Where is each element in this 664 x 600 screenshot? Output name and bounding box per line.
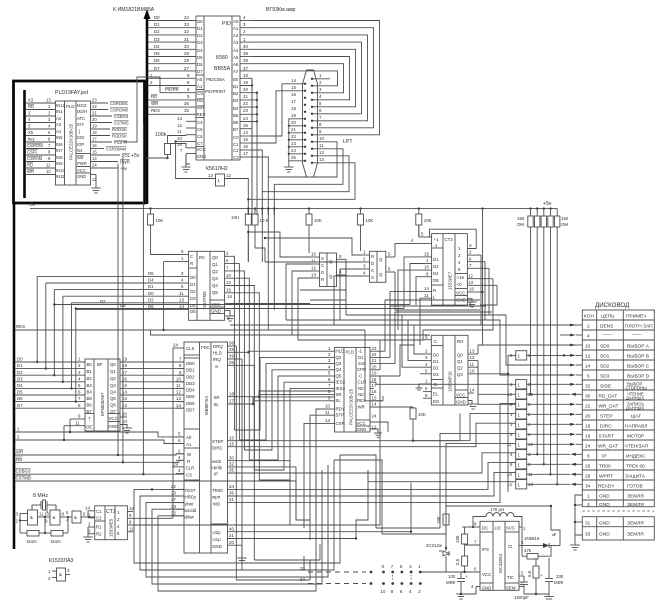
svg-text:40: 40 xyxy=(243,44,248,49)
svg-text:1500pF: 1500pF xyxy=(514,595,529,600)
svg-text:RD: RD xyxy=(197,98,203,103)
wire PLD2 HLD link xyxy=(248,351,326,352)
svg-text:ШАГ: ШАГ xyxy=(631,413,642,419)
wire verticals TM9 Q to PLD2 inputs xyxy=(234,357,326,480)
svg-text:CSROM44: CSROM44 xyxy=(106,147,127,152)
svg-text:ATC: ATC xyxy=(77,116,85,121)
IC D10 right pin stubs xyxy=(370,346,413,438)
svg-text:12: 12 xyxy=(372,424,377,429)
svg-text:RD: RD xyxy=(28,104,34,109)
wire RES pin35 xyxy=(148,108,196,114)
wire U1p U2p loops right xyxy=(334,455,446,540)
svg-text:Q0: Q0 xyxy=(110,362,116,367)
svg-text:20: 20 xyxy=(92,117,97,122)
IC D9 pin CLK xyxy=(173,343,184,348)
wire D5 net xyxy=(16,390,86,395)
flip-flop D6.2 box xyxy=(370,251,386,282)
IC D9 right pins STEP DIRC xyxy=(228,413,516,446)
svg-text:16: 16 xyxy=(585,433,591,439)
svg-text:DB0: DB0 xyxy=(186,361,195,366)
svg-text:PIOPR: PIOPR xyxy=(165,87,179,92)
svg-text:19: 19 xyxy=(243,80,248,85)
svg-text:27: 27 xyxy=(171,497,176,502)
svg-text:PWR: PWR xyxy=(120,160,130,165)
svg-text:33: 33 xyxy=(585,532,591,538)
svg-text:ПРИМЕЧ: ПРИМЕЧ xyxy=(626,313,647,319)
svg-text:К ИМ1821ВМ85А: К ИМ1821ВМ85А xyxy=(113,7,155,13)
flip-flop D6.1 pins xyxy=(311,252,346,278)
svg-text:30: 30 xyxy=(229,455,234,460)
svg-text:IN8: IN8 xyxy=(56,155,63,160)
svg-text:15: 15 xyxy=(229,435,234,440)
svg-text:ЗЕМЛЯ: ЗЕМЛЯ xyxy=(627,521,644,527)
svg-text:13: 13 xyxy=(470,349,475,354)
wire CI connection xyxy=(0,0,1,1)
wire C6 C7 to inverter xyxy=(174,135,216,179)
svg-text:U1p: U1p xyxy=(213,537,222,542)
svg-text:Q: Q xyxy=(379,257,383,262)
svg-text:C: C xyxy=(371,268,374,273)
svg-text:PLD: PLD xyxy=(66,104,75,109)
svg-text:18: 18 xyxy=(122,363,127,368)
svg-text:11: 11 xyxy=(470,362,475,367)
node dashed option box thick border xyxy=(14,81,145,203)
svg-text:D1: D1 xyxy=(433,257,439,262)
ground bottom cluster xyxy=(524,593,554,599)
svg-text:33: 33 xyxy=(184,22,189,27)
connector LPT left pin numbers xyxy=(291,78,296,160)
svg-text:VCC: VCC xyxy=(357,421,366,426)
svg-text:ВЫБОР В: ВЫБОР В xyxy=(627,353,649,359)
svg-text:PIOPR: PIOPR xyxy=(114,140,127,145)
svg-text:R: R xyxy=(187,459,190,464)
resistor R11 150 Om xyxy=(555,209,560,486)
svg-text:HLD: HLD xyxy=(336,349,345,354)
svg-text:WR: WR xyxy=(197,105,204,110)
svg-text:12: 12 xyxy=(507,482,512,487)
svg-text:Q1: Q1 xyxy=(110,369,116,374)
svg-text:R2: R2 xyxy=(96,532,102,537)
svg-text:GND: GND xyxy=(357,427,367,432)
svg-text:B1: B1 xyxy=(87,369,93,374)
wire output node xyxy=(545,505,560,556)
svg-text:SL: SL xyxy=(214,402,220,407)
resistor R8 150 Om xyxy=(535,209,540,456)
wire D3 to PIO xyxy=(148,37,196,42)
wire LPT pin1 stub xyxy=(313,78,330,80)
svg-text:+: + xyxy=(465,574,468,579)
svg-text:12: 12 xyxy=(468,273,473,278)
svg-text:12: 12 xyxy=(585,353,591,359)
svg-text:12: 12 xyxy=(122,403,127,408)
svg-text:12: 12 xyxy=(176,390,181,395)
svg-text:20: 20 xyxy=(229,540,234,545)
svg-text:Q: Q xyxy=(379,272,383,277)
svg-text:19: 19 xyxy=(291,113,296,118)
IC D9 pins DB0-DB7 xyxy=(176,357,184,409)
wire VCC stub xyxy=(171,144,187,148)
wire bus verticals from LPT area down xyxy=(248,78,274,215)
svg-text:w1/dd: w1/dd xyxy=(185,508,197,513)
svg-text:32: 32 xyxy=(171,510,176,515)
svg-text:КР580ВА87: КР580ВА87 xyxy=(100,392,105,416)
svg-text:&: & xyxy=(74,515,77,520)
wire IE5 R1 R2 ground xyxy=(83,527,93,542)
svg-text:D2: D2 xyxy=(190,289,196,294)
svg-text:wstb: wstb xyxy=(212,459,222,464)
svg-text:13: 13 xyxy=(122,396,127,401)
svg-text:Q: Q xyxy=(329,274,333,279)
svg-text:Q5: Q5 xyxy=(212,290,218,295)
svg-text:GND: GND xyxy=(482,586,492,591)
svg-text:SR: SR xyxy=(336,392,342,397)
connector XS2 power pins row2 xyxy=(370,582,422,585)
svg-text:15: 15 xyxy=(226,287,231,292)
svg-text:C4: C4 xyxy=(197,120,203,125)
svg-text:LPT: LPT xyxy=(343,139,353,145)
svg-text:D0: D0 xyxy=(17,357,23,362)
svg-text:11: 11 xyxy=(176,383,181,388)
svg-text:R: R xyxy=(190,261,193,266)
wire TM9 clock from R1 pullup xyxy=(151,254,181,256)
svg-text:WPRT: WPRT xyxy=(599,473,613,479)
svg-text:10: 10 xyxy=(176,376,181,381)
gate DD3 spare xyxy=(48,568,70,581)
svg-text:IN12: IN12 xyxy=(56,103,66,108)
svg-text:17: 17 xyxy=(291,99,296,104)
svg-text:28: 28 xyxy=(184,58,189,63)
node power top rail xyxy=(446,505,551,507)
svg-text:4: 4 xyxy=(587,333,590,339)
svg-text:14: 14 xyxy=(585,363,591,369)
svg-text:TEST: TEST xyxy=(185,488,197,493)
wire WR net xyxy=(16,450,185,455)
svg-text:32: 32 xyxy=(229,462,234,467)
svg-text:15: 15 xyxy=(92,150,97,155)
svg-text:IOP: IOP xyxy=(77,142,84,147)
svg-text:10Н: 10Н xyxy=(231,215,239,220)
wire +5v rail xyxy=(30,207,557,209)
svg-text:ЦЕПЬ: ЦЕПЬ xyxy=(601,313,614,319)
svg-text:X5: X5 xyxy=(28,130,34,135)
capacitor C6 1500pF xyxy=(514,576,529,600)
svg-text:IN10: IN10 xyxy=(56,168,66,173)
IC U4 MC34063 box xyxy=(480,521,519,590)
wire right risers to driver column xyxy=(368,413,516,534)
svg-text:34: 34 xyxy=(229,484,234,489)
svg-text:10: 10 xyxy=(177,136,182,141)
svg-text:A5: A5 xyxy=(233,55,239,60)
svg-text:30: 30 xyxy=(184,44,189,49)
svg-text:10 K: 10 K xyxy=(260,218,269,223)
svg-text:10K: 10K xyxy=(156,218,164,223)
svg-text:BF: BF xyxy=(97,362,103,367)
svg-text:19: 19 xyxy=(92,124,97,129)
svg-text:GND: GND xyxy=(77,174,86,179)
svg-text:D0: D0 xyxy=(197,19,203,24)
wire D1 to PIO xyxy=(148,22,196,28)
svg-text:10: 10 xyxy=(507,472,512,477)
connector XS2 numbers row1 xyxy=(382,564,422,569)
svg-text:0,5: 0,5 xyxy=(455,558,460,565)
wire osc out to IE5 xyxy=(88,511,95,517)
svg-text:IN6: IN6 xyxy=(56,142,63,147)
node DISKOVOD title xyxy=(595,302,630,309)
IC D9 FDC MB8876A box xyxy=(184,342,228,553)
svg-text:CLK: CLK xyxy=(186,346,195,351)
wire power feed to converter xyxy=(420,571,461,573)
svg-text:PLD19FAY.jed: PLD19FAY.jed xyxy=(55,90,88,96)
svg-text:39: 39 xyxy=(229,354,234,359)
svg-text:PWR: PWR xyxy=(77,161,87,166)
svg-text:10: 10 xyxy=(470,368,475,373)
IC D7 pins left xyxy=(408,232,432,299)
wire vertical drops B group to mid region xyxy=(248,209,274,330)
wire PIO C0 C1 to LPT 14 15 xyxy=(252,84,305,143)
svg-text:34: 34 xyxy=(300,577,305,582)
svg-text:21: 21 xyxy=(372,358,377,363)
svg-text:HLD: HLD xyxy=(213,351,222,356)
IC U1 right pin stubs and numbers xyxy=(240,15,257,157)
connector XS2 power pins row1 xyxy=(370,571,422,574)
svg-text:32: 32 xyxy=(184,29,189,34)
svg-text:+1: +1 xyxy=(434,237,440,242)
svg-text:15: 15 xyxy=(291,85,296,90)
wire IE7 D input links xyxy=(390,257,424,345)
IC D3 left pin numbers xyxy=(64,357,85,426)
svg-text:B7: B7 xyxy=(233,127,239,132)
svg-text:——: —— xyxy=(603,333,613,338)
svg-text:GND: GND xyxy=(599,502,610,508)
wire D0 to PIO xyxy=(148,15,196,21)
wire GND bus of table xyxy=(570,495,582,550)
wire arrow tails xyxy=(576,325,582,484)
svg-text:D2: D2 xyxy=(154,29,160,34)
svg-text:RDY: RDY xyxy=(336,406,345,411)
svg-text:GND: GND xyxy=(599,521,610,527)
wire D2 branch xyxy=(53,299,410,306)
wire PIO C2 C3 drops xyxy=(252,150,268,192)
svg-text:D3: D3 xyxy=(190,296,196,301)
svg-text:IN1: IN1 xyxy=(56,109,63,114)
IC U1 left lower pins C4-C7 VCC GND xyxy=(177,116,196,154)
svg-text:GND: GND xyxy=(599,493,610,499)
svg-text:1kom: 1kom xyxy=(26,539,37,544)
svg-text:1N5819: 1N5819 xyxy=(524,536,540,541)
svg-text:CSR: CSR xyxy=(336,421,345,426)
svg-text:READY: READY xyxy=(598,483,615,489)
svg-text:M2/H: M2/H xyxy=(77,109,87,114)
svg-text:11: 11 xyxy=(319,143,324,148)
svg-text:Q6: Q6 xyxy=(110,403,116,408)
svg-text:SIDE: SIDE xyxy=(600,383,611,389)
svg-text:SD0: SD0 xyxy=(600,343,610,349)
svg-text:PALCE22V10B-25: PALCE22V10B-25 xyxy=(69,123,74,160)
svg-text:23: 23 xyxy=(291,141,296,146)
svg-text:11: 11 xyxy=(75,421,80,426)
svg-text:D6: D6 xyxy=(197,62,203,67)
svg-text:ВЫБОР D: ВЫБОР D xyxy=(627,373,650,379)
svg-text:10: 10 xyxy=(319,136,324,141)
wire D6 net xyxy=(16,396,86,401)
wire PIO B0 B1 drop xyxy=(240,78,253,215)
svg-text:D3: D3 xyxy=(17,376,23,381)
resistor R12 10K near PLD2 xyxy=(410,407,426,442)
svg-text:D4: D4 xyxy=(433,271,439,276)
svg-text:3: 3 xyxy=(587,502,590,508)
svg-text:26: 26 xyxy=(585,463,591,469)
wire TM9 reset from RES line xyxy=(162,262,180,332)
svg-text:DENS: DENS xyxy=(600,323,613,329)
wire FF2 input links xyxy=(264,237,362,325)
svg-text:ЗАЩИТА: ЗАЩИТА xyxy=(625,473,646,479)
svg-text:12: 12 xyxy=(13,519,18,524)
node table header xyxy=(584,313,647,319)
svg-text:36: 36 xyxy=(184,101,189,106)
svg-text:IES2: IES2 xyxy=(336,380,346,385)
svg-text:38: 38 xyxy=(243,58,248,63)
svg-text:1kom: 1kom xyxy=(50,539,61,544)
svg-text:IPS: IPS xyxy=(482,547,489,552)
wire DENS long link xyxy=(230,324,576,326)
svg-text:key: key xyxy=(28,137,35,142)
svg-text:WR: WR xyxy=(16,450,23,455)
svg-text:SEM: SEM xyxy=(506,586,516,591)
svg-text:RES: RES xyxy=(151,108,160,113)
wire D4 to PIO xyxy=(148,44,196,49)
svg-text:WR_GAT: WR_GAT xyxy=(598,443,618,449)
svg-text:IOD: IOD xyxy=(77,135,84,140)
svg-text:RES: RES xyxy=(16,324,25,329)
svg-text:12: 12 xyxy=(470,355,475,360)
svg-text:VCC: VCC xyxy=(77,168,86,173)
svg-text:R: R xyxy=(321,277,324,282)
svg-text:D3: D3 xyxy=(154,37,160,42)
wire D0 net xyxy=(16,357,86,362)
svg-text:11: 11 xyxy=(507,442,512,447)
gate DD1.3 NAND xyxy=(66,510,95,523)
svg-text:12: 12 xyxy=(226,173,231,178)
svg-text:C0: C0 xyxy=(233,135,239,140)
inductor L1 170uH xyxy=(473,507,522,527)
svg-text:20: 20 xyxy=(585,413,591,419)
wire FF1 input links xyxy=(247,231,311,340)
svg-text:12: 12 xyxy=(319,150,324,155)
svg-text:D2: D2 xyxy=(100,299,106,304)
svg-text:PIO: PIO xyxy=(222,21,231,27)
svg-text:13: 13 xyxy=(319,157,324,162)
svg-text:14: 14 xyxy=(243,130,248,135)
svg-text:D1: D1 xyxy=(358,355,364,360)
svg-text:T: T xyxy=(88,417,91,422)
svg-text:26: 26 xyxy=(229,360,234,365)
svg-text:NC: NC xyxy=(358,386,364,391)
svg-text:D1: D1 xyxy=(190,282,196,287)
svg-text:2: 2 xyxy=(587,323,590,329)
svg-text:14: 14 xyxy=(424,286,429,291)
svg-text:1533ИЕ5: 1533ИЕ5 xyxy=(109,518,114,537)
svg-text:14: 14 xyxy=(85,505,90,510)
svg-text:Q4: Q4 xyxy=(336,367,342,372)
svg-text:ДИСКОВОД: ДИСКОВОД xyxy=(595,302,630,309)
wire IR16 Q0-Q2 to drivers xyxy=(478,345,576,404)
wire IR16 C input from left xyxy=(420,373,423,375)
svg-text:ГОТОВ: ГОТОВ xyxy=(627,483,643,489)
IC D3 right pins Q0-Q7 to FDC xyxy=(120,357,184,433)
svg-text:16: 16 xyxy=(227,294,232,299)
wire data verticals from D bus xyxy=(36,276,77,402)
svg-text:13: 13 xyxy=(325,418,330,423)
wire PIOPR out of box to PIO CS xyxy=(124,77,160,142)
IC D11 left pins xyxy=(423,334,431,398)
svg-text:23: 23 xyxy=(243,108,248,113)
svg-text:35: 35 xyxy=(184,108,189,113)
svg-text:10: 10 xyxy=(122,419,127,424)
wire PIO B2-B6 junction dots column xyxy=(256,92,258,216)
svg-text:D2: D2 xyxy=(433,366,439,371)
svg-text:14: 14 xyxy=(92,156,97,161)
node K1533LA3 label xyxy=(49,558,73,564)
svg-text:HRDy: HRDy xyxy=(185,495,198,500)
diode VD1 1N5819 xyxy=(522,527,560,548)
IC D10 PALCE22V10 right box xyxy=(335,347,370,432)
IC D9 pins A0 A1 W R CLR CS xyxy=(172,432,184,474)
svg-text:24: 24 xyxy=(173,343,178,348)
ground C5 xyxy=(456,594,466,599)
svg-text:RES: RES xyxy=(197,112,206,117)
svg-text:13: 13 xyxy=(468,280,473,285)
resistor R5 10K xyxy=(358,209,374,251)
svg-text:B2: B2 xyxy=(233,91,239,96)
svg-text:CI: CI xyxy=(508,544,512,549)
svg-text:150: 150 xyxy=(517,216,525,221)
svg-text:15: 15 xyxy=(243,137,248,142)
svg-text:C: C xyxy=(434,339,437,344)
svg-text:ВЫБОР А: ВЫБОР А xyxy=(627,343,650,349)
svg-text:A4: A4 xyxy=(233,48,239,53)
svg-text:Q2: Q2 xyxy=(212,269,218,274)
svg-text:28: 28 xyxy=(585,473,591,479)
svg-text:22: 22 xyxy=(291,134,296,139)
wire PLD2 RDY STP CSR bottom links xyxy=(304,409,324,540)
svg-text:RD: RD xyxy=(27,163,33,168)
svg-text:Q2: Q2 xyxy=(110,376,116,381)
svg-text:GND: GND xyxy=(197,154,207,159)
connector LPT right pin numbers xyxy=(319,73,324,162)
svg-text:D7: D7 xyxy=(17,403,23,408)
wire FF outputs xyxy=(300,244,480,310)
svg-text:22: 22 xyxy=(171,484,176,489)
svg-text:U2p: U2p xyxy=(213,530,222,535)
svg-text:33: 33 xyxy=(171,504,176,509)
svg-text:13: 13 xyxy=(177,116,182,121)
svg-text:11: 11 xyxy=(129,526,134,531)
svg-text:17: 17 xyxy=(229,399,234,404)
svg-text:CLR: CLR xyxy=(186,466,195,471)
svg-text:D1: D1 xyxy=(17,363,23,368)
svg-text:CT2: CT2 xyxy=(445,237,454,242)
svg-text:13: 13 xyxy=(46,98,51,103)
svg-text:Q3: Q3 xyxy=(110,383,116,388)
ground D1 GND xyxy=(91,175,101,194)
svg-text:B0: B0 xyxy=(233,77,239,82)
svg-text:>15: >15 xyxy=(457,275,465,280)
svg-text:C2: C2 xyxy=(233,148,239,153)
svg-text:10K: 10K xyxy=(418,412,426,417)
svg-text:16: 16 xyxy=(291,92,296,97)
svg-text:IES4: IES4 xyxy=(336,386,346,391)
svg-text:B3: B3 xyxy=(87,383,93,388)
